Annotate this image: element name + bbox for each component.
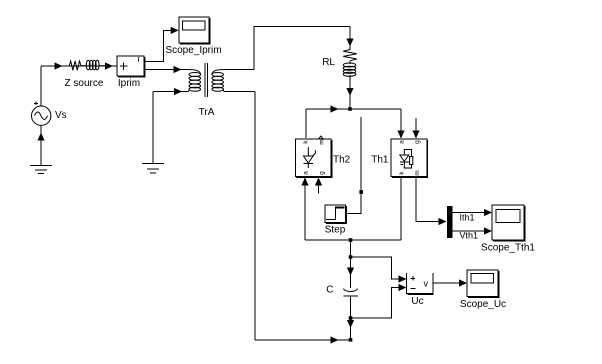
svg-text:Scope_Tth1: Scope_Tth1 [481,243,535,254]
svg-text:a: a [399,140,406,144]
svg-text:Ith1: Ith1 [460,213,475,223]
svg-text:Th1: Th1 [371,155,389,166]
svg-text:m: m [319,139,326,144]
svg-text:Uc: Uc [411,296,423,307]
svg-text:Step: Step [325,225,346,236]
svg-text:Vth1: Vth1 [460,231,479,241]
svg-text:RL: RL [322,57,335,68]
svg-text:Vs: Vs [55,110,67,121]
svg-text:Scope_Uc: Scope_Uc [460,299,506,310]
svg-text:Iprim: Iprim [118,78,140,89]
svg-text:g: g [319,171,326,175]
svg-text:v: v [424,279,429,289]
svg-text:C: C [326,285,333,296]
svg-text:g: g [414,140,421,144]
svg-text:Th2: Th2 [333,155,351,166]
svg-text:TrA: TrA [199,107,215,118]
svg-text:Scope_Iprim: Scope_Iprim [165,45,221,56]
svg-text:m: m [414,170,421,175]
svg-text:Z source: Z source [65,78,104,89]
svg-text:a: a [303,171,310,175]
